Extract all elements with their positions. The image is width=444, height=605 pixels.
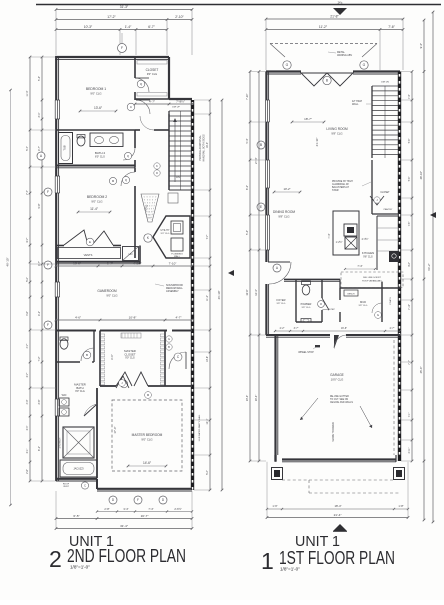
svg-text:24′±: 24′± bbox=[338, 1, 343, 5]
right margin connectors bbox=[401, 71, 412, 73]
stair stringer right plan bbox=[384, 86, 386, 158]
bath2 tub bbox=[59, 133, 73, 164]
lower dim line 4-6 10-8 4-7 bbox=[56, 319, 192, 321]
svg-text:7′-4″: 7′-4″ bbox=[327, 233, 331, 238]
svg-text:1′-4″: 1′-4″ bbox=[125, 25, 132, 29]
svg-text:K: K bbox=[156, 164, 158, 168]
closet top shelf bbox=[121, 333, 141, 338]
svg-text:DN: DN bbox=[176, 175, 180, 179]
svg-text:4′-7″: 4′-7″ bbox=[149, 99, 156, 103]
powder sink bbox=[301, 319, 311, 323]
north arrow bottom bbox=[333, 524, 347, 531]
svg-text:1/8″=1′-0″: 1/8″=1′-0″ bbox=[280, 567, 300, 572]
washer dryer bbox=[59, 398, 69, 406]
powder room bbox=[295, 280, 297, 323]
svg-text:HANDRAIL BOTH SIDES: HANDRAIL BOTH SIDES bbox=[203, 134, 206, 162]
coats closet bbox=[381, 282, 383, 322]
svg-text:1′-2½″: 1′-2½″ bbox=[336, 240, 343, 244]
kitchen counters right bbox=[376, 216, 378, 270]
svg-text:5′-2″: 5′-2″ bbox=[26, 277, 29, 282]
svg-text:GARAGE: GARAGE bbox=[330, 373, 344, 377]
porch post left bbox=[272, 468, 283, 480]
garage left wall bbox=[274, 335, 276, 461]
garage top dim line bbox=[275, 330, 400, 332]
svg-text:11′-3″: 11′-3″ bbox=[26, 90, 29, 96]
metal awning dashed outline bbox=[270, 43, 377, 45]
water heater bbox=[171, 221, 183, 234]
svg-text:2′-8″: 2′-8″ bbox=[104, 507, 109, 511]
svg-text:F: F bbox=[137, 498, 139, 502]
svg-text:CEILING AND WALLS: CEILING AND WALLS bbox=[330, 401, 353, 404]
svg-text:4′-8″: 4′-8″ bbox=[26, 311, 29, 316]
svg-text:W/D: W/D bbox=[62, 394, 67, 397]
svg-text:VENTS: VENTS bbox=[84, 253, 93, 257]
svg-text:4′-0″: 4′-0″ bbox=[26, 399, 29, 404]
svg-text:8′-2″: 8′-2″ bbox=[246, 185, 249, 190]
hall door to master right bbox=[168, 331, 170, 353]
svg-text:10′-2″: 10′-2″ bbox=[283, 187, 290, 191]
svg-text:9′8″ CLG: 9′8″ CLG bbox=[278, 214, 289, 218]
svg-text:17′-2″: 17′-2″ bbox=[107, 15, 116, 19]
svg-text:21′-10″: 21′-10″ bbox=[315, 138, 319, 147]
closet door arc bbox=[135, 78, 149, 92]
right plan left wall bbox=[265, 72, 267, 101]
svg-text:3′-7″: 3′-7″ bbox=[294, 327, 299, 330]
svg-text:12′-4″: 12′-4″ bbox=[254, 289, 258, 296]
svg-text:RE-USE GUTTER: RE-USE GUTTER bbox=[330, 396, 349, 398]
svg-text:31′-3″: 31′-3″ bbox=[120, 5, 129, 9]
svg-text:CLOSET: CLOSET bbox=[380, 192, 390, 194]
svg-text:PROVIDE 36″ HIGH: PROVIDE 36″ HIGH bbox=[332, 181, 353, 183]
svg-text:4′-2″: 4′-2″ bbox=[409, 262, 411, 267]
svg-text:SHOWER: SHOWER bbox=[59, 437, 62, 448]
svg-text:16R DN: 16R DN bbox=[381, 82, 389, 84]
svg-text:21′-4″: 21′-4″ bbox=[334, 513, 343, 517]
svg-text:7′-6″: 7′-6″ bbox=[388, 25, 395, 29]
svg-text:10′-3″: 10′-3″ bbox=[84, 25, 93, 29]
soffit wall step bbox=[339, 280, 341, 289]
left bottom wall bbox=[56, 478, 97, 480]
stairs 1st floor bbox=[371, 86, 373, 158]
kitchen sink dark bbox=[389, 251, 399, 262]
svg-text:7′-10″: 7′-10″ bbox=[246, 93, 249, 99]
utility plumbing box bbox=[171, 238, 183, 251]
svg-text:BENCH: BENCH bbox=[347, 294, 355, 296]
hall bottom wall bbox=[266, 321, 296, 323]
svg-text:4′-6″: 4′-6″ bbox=[75, 315, 81, 319]
svg-text:10′-6″: 10′-6″ bbox=[206, 356, 209, 362]
left plan bottom dim 31-4 bbox=[56, 528, 192, 530]
mid margin overall bbox=[221, 100, 223, 490]
svg-text:PANTRY: PANTRY bbox=[384, 208, 393, 211]
mid margin dim line left plan right side bbox=[209, 100, 211, 490]
linen closet with diagonal bbox=[123, 247, 139, 261]
svg-text:5′-4″: 5′-4″ bbox=[246, 138, 249, 143]
right margin overall bbox=[432, 12, 434, 522]
svg-text:11′-2″: 11′-2″ bbox=[319, 25, 328, 29]
svg-text:2: 2 bbox=[49, 546, 62, 572]
svg-text:12′-1″: 12′-1″ bbox=[206, 418, 209, 424]
wc toilet room bbox=[60, 339, 68, 349]
svg-text:3′-1″: 3′-1″ bbox=[26, 448, 29, 453]
front door arc bbox=[265, 262, 267, 284]
svg-text:TO CUT. SEE ON: TO CUT. SEE ON bbox=[330, 399, 349, 401]
svg-text:9′8″ CLG: 9′8″ CLG bbox=[277, 303, 286, 305]
master closet block top wall bbox=[56, 330, 96, 332]
low headroom wedge under stair bbox=[141, 194, 159, 222]
svg-text:3′-1″: 3′-1″ bbox=[38, 112, 41, 117]
section diamond right bbox=[430, 212, 436, 218]
svg-text:5′-4″: 5′-4″ bbox=[246, 230, 249, 235]
windows on left wall bbox=[54, 100, 56, 119]
right party wall heavy bbox=[398, 72, 401, 462]
svg-text:GAMEROOM: GAMEROOM bbox=[97, 289, 117, 293]
hall doors arcs bbox=[123, 148, 135, 160]
svg-text:21′-8″: 21′-8″ bbox=[330, 14, 339, 18]
stairs 2nd floor bbox=[168, 111, 170, 190]
garage bottom wall bbox=[282, 458, 396, 460]
closet shelf ticks left bbox=[101, 334, 105, 337]
svg-text:B: B bbox=[168, 345, 170, 349]
left margin dim line inner bbox=[41, 57, 43, 481]
svg-text:9′-8″: 9′-8″ bbox=[38, 203, 41, 208]
svg-text:POWDER: POWDER bbox=[301, 303, 312, 306]
svg-text:BALUSTERS AT: BALUSTERS AT bbox=[332, 186, 350, 189]
wall below bedroom2 closet bbox=[56, 261, 140, 263]
svg-text:2′-11″: 2′-11″ bbox=[409, 447, 411, 453]
closet shelf ticks right bbox=[160, 334, 164, 337]
svg-text:JACUZZI: JACUZZI bbox=[73, 468, 84, 471]
svg-text:STAIR: STAIR bbox=[332, 189, 339, 192]
wc room bottom wall bbox=[56, 361, 80, 363]
svg-text:7′-4″: 7′-4″ bbox=[148, 507, 153, 511]
svg-text:46′-10″: 46′-10″ bbox=[6, 257, 10, 266]
svg-text:2′-3½″: 2′-3½″ bbox=[362, 237, 369, 241]
bath door notch bbox=[84, 404, 97, 416]
left plan dim line 10-3 / 1-4 / 6-7 bbox=[56, 29, 167, 31]
driveway dashed outline bbox=[282, 479, 394, 481]
svg-text:GUARDRAIL W/: GUARDRAIL W/ bbox=[332, 183, 349, 186]
bedroom2 closet shelf bbox=[56, 245, 64, 247]
kitchen appliance upper bbox=[344, 224, 357, 236]
svg-text:7′-8½″: 7′-8½″ bbox=[176, 99, 186, 103]
svg-text:19′-4″: 19′-4″ bbox=[254, 395, 258, 402]
svg-text:6′-7″: 6′-7″ bbox=[26, 237, 29, 242]
shower with X bbox=[63, 427, 94, 458]
svg-text:2′-7″: 2′-7″ bbox=[390, 327, 395, 330]
section diamond mid bbox=[228, 270, 234, 276]
french doors entry triangles bbox=[301, 73, 327, 86]
bath2 vanity bbox=[90, 133, 123, 147]
svg-text:1′-7″: 1′-7″ bbox=[107, 261, 113, 265]
stair up arrow bbox=[174, 120, 176, 182]
svg-text:B: B bbox=[86, 353, 88, 357]
master bath partition bbox=[96, 388, 98, 478]
svg-text:F: F bbox=[47, 323, 49, 327]
svg-text:10′-8″: 10′-8″ bbox=[129, 315, 137, 319]
svg-text:MASTER BEDROOM: MASTER BEDROOM bbox=[132, 433, 163, 437]
svg-text:SLOPE TO DRAIN: SLOPE TO DRAIN bbox=[332, 422, 335, 442]
svg-text:5′-4″: 5′-4″ bbox=[206, 470, 209, 475]
svg-text:18′-7″: 18′-7″ bbox=[304, 117, 312, 121]
svg-text:COATS: COATS bbox=[389, 297, 392, 305]
left plan dim line 17-2 / 2-10 bbox=[56, 19, 192, 21]
svg-text:LIN: LIN bbox=[129, 253, 133, 256]
right plan left margin dims bbox=[249, 72, 251, 462]
utility closet pentagon bbox=[153, 216, 190, 258]
svg-text:3′-7″: 3′-7″ bbox=[26, 372, 29, 377]
master bedroom doors top bbox=[116, 376, 129, 388]
left plan exterior walls bbox=[55, 56, 169, 58]
svg-text:WALL: WALL bbox=[174, 255, 181, 258]
svg-text:C: C bbox=[84, 484, 86, 488]
svg-text:4′-7″: 4′-7″ bbox=[176, 315, 182, 319]
svg-text:2′-2″: 2′-2″ bbox=[280, 327, 285, 330]
grid bubble F above plan bbox=[118, 44, 127, 53]
svg-text:BEDROOM 2: BEDROOM 2 bbox=[87, 195, 107, 199]
svg-text:5′-7″: 5′-7″ bbox=[26, 146, 29, 151]
svg-text:DINING ROOM: DINING ROOM bbox=[273, 210, 295, 214]
svg-text:4′-5½″: 4′-5½″ bbox=[133, 261, 141, 265]
svg-text:1′-8″: 1′-8″ bbox=[398, 504, 403, 508]
garage door from mud - filled leaf bbox=[334, 335, 339, 349]
soffit dashed band bbox=[341, 272, 403, 288]
garage top wall bbox=[266, 334, 330, 336]
svg-text:KITCHEN: KITCHEN bbox=[362, 251, 374, 255]
kitchen island block bbox=[333, 211, 359, 255]
svg-text:3′-4″: 3′-4″ bbox=[26, 425, 29, 430]
left margin connector ticks bbox=[30, 56, 56, 58]
left plan bottom dim 6-5 16-7 bbox=[56, 518, 192, 520]
closet under stairs bbox=[371, 160, 373, 214]
svg-text:19′-4″: 19′-4″ bbox=[246, 395, 249, 401]
svg-text:16′-6″: 16′-6″ bbox=[341, 327, 347, 330]
svg-text:9′0″ CLG: 9′0″ CLG bbox=[90, 91, 101, 95]
svg-text:7′-4″: 7′-4″ bbox=[357, 264, 362, 268]
svg-text:8′-1″: 8′-1″ bbox=[38, 446, 41, 451]
svg-text:7′-2″: 7′-2″ bbox=[38, 356, 41, 361]
svg-text:G: G bbox=[363, 63, 366, 67]
sheet top border line bbox=[36, 4, 441, 6]
svg-text:9′0″ CLG: 9′0″ CLG bbox=[106, 293, 117, 297]
mud room bbox=[339, 288, 341, 300]
svg-text:TUB: TUB bbox=[63, 145, 67, 150]
svg-text:7′-1″: 7′-1″ bbox=[409, 413, 411, 418]
svg-text:ROOF (BEAM) ABV: ROOF (BEAM) ABV bbox=[362, 280, 382, 283]
master bedroom bottom wall bbox=[97, 488, 192, 490]
left wall grid bubbles bbox=[37, 152, 45, 160]
svg-text:7′-4″: 7′-4″ bbox=[409, 94, 411, 99]
svg-text:D: D bbox=[156, 171, 158, 175]
mid margin connectors bbox=[194, 99, 210, 101]
svg-text:CLOSET: CLOSET bbox=[146, 68, 159, 72]
grid bubbles G top bbox=[283, 61, 291, 69]
svg-text:9′0″ CLG: 9′0″ CLG bbox=[91, 199, 102, 203]
hall side wall x169 lower bbox=[168, 114, 170, 190]
svg-text:14′-6″: 14′-6″ bbox=[143, 461, 152, 465]
svg-text:7′-10″: 7′-10″ bbox=[409, 304, 411, 310]
svg-text:1′-6″: 1′-6″ bbox=[272, 504, 277, 508]
svg-text:5′-4″: 5′-4″ bbox=[409, 177, 411, 182]
svg-text:7′-7″: 7′-7″ bbox=[409, 360, 411, 365]
svg-text:9′8″ CLG: 9′8″ CLG bbox=[363, 255, 373, 258]
svg-text:64′-2″: 64′-2″ bbox=[427, 263, 431, 270]
svg-text:4′-1″: 4′-1″ bbox=[38, 311, 41, 316]
svg-text:2′-8″: 2′-8″ bbox=[26, 469, 29, 474]
svg-text:ASSEMBLY: ASSEMBLY bbox=[166, 290, 179, 293]
stair kd circles bbox=[154, 163, 160, 169]
svg-text:VENT: VENT bbox=[63, 486, 69, 488]
svg-text:G: G bbox=[377, 313, 379, 317]
jacuzzi tub bbox=[60, 460, 97, 477]
master closet walls bbox=[99, 331, 101, 387]
svg-text:DBL LINE SOFFIT: DBL LINE SOFFIT bbox=[363, 277, 382, 279]
left plan top dimension line 31-3 bbox=[56, 9, 192, 11]
stair dim line 4-7 / 7-8 bbox=[135, 103, 192, 105]
svg-text:6′-7″: 6′-7″ bbox=[148, 25, 155, 29]
svg-text:FOYER: FOYER bbox=[277, 298, 286, 302]
svg-text:1: 1 bbox=[261, 548, 274, 574]
svg-text:1ST FLOOR PLAN: 1ST FLOOR PLAN bbox=[279, 548, 395, 568]
svg-text:E: E bbox=[89, 240, 91, 244]
right plan dim 11-2 7-6 bbox=[266, 29, 403, 31]
bath2 floor wall bbox=[56, 129, 135, 131]
svg-text:9′0″ CLG: 9′0″ CLG bbox=[141, 437, 152, 441]
svg-text:B: B bbox=[326, 79, 328, 83]
north arrow top bbox=[333, 8, 347, 15]
right plan top dim 21-8 bbox=[266, 18, 403, 20]
stair landing box bbox=[168, 193, 178, 203]
right margin dim line 1 bbox=[411, 72, 413, 462]
svg-text:16R UP: 16R UP bbox=[172, 107, 180, 109]
svg-text:31′-4″: 31′-4″ bbox=[120, 524, 129, 528]
svg-text:8′0″ CLG: 8′0″ CLG bbox=[95, 156, 105, 159]
bedroom1 door to hall bbox=[134, 99, 136, 100]
powder door arc bbox=[322, 298, 329, 310]
svg-text:BATH 2: BATH 2 bbox=[95, 151, 106, 155]
hall wall below bath2 bbox=[56, 165, 135, 167]
svg-text:3′-4″: 3′-4″ bbox=[123, 507, 128, 511]
extension lines from top dims bbox=[55, 10, 57, 56]
master closet bifold doors bbox=[116, 372, 132, 386]
svg-text:9′8″ CLG: 9′8″ CLG bbox=[302, 307, 311, 309]
left margin dim line outer bbox=[29, 57, 31, 481]
bedroom1 / closet partition bbox=[134, 57, 136, 78]
svg-text:18′-4″: 18′-4″ bbox=[334, 504, 341, 508]
svg-text:BEDROOM 1: BEDROOM 1 bbox=[86, 87, 106, 91]
svg-text:11′-4″: 11′-4″ bbox=[90, 207, 99, 211]
left wall bubbles bbox=[257, 141, 265, 149]
svg-text:17′-0″: 17′-0″ bbox=[113, 426, 117, 433]
svg-text:13′-6″: 13′-6″ bbox=[94, 106, 103, 110]
right plan left wall windows bbox=[265, 100, 267, 122]
svg-text:7′-6″: 7′-6″ bbox=[409, 222, 411, 227]
stair stringer left plan bbox=[180, 111, 182, 190]
svg-text:6′-0″: 6′-0″ bbox=[110, 354, 114, 360]
svg-text:28′-10″: 28′-10″ bbox=[419, 171, 423, 179]
svg-text:46′-10″: 46′-10″ bbox=[217, 291, 221, 300]
gameroom dim line bbox=[56, 265, 192, 267]
bath2 hall wall segment bbox=[135, 129, 140, 131]
svg-text:F: F bbox=[121, 46, 123, 50]
svg-text:G: G bbox=[168, 337, 170, 341]
closet shelves top bbox=[137, 61, 167, 65]
svg-text:7′-7″: 7′-7″ bbox=[26, 190, 29, 195]
svg-text:7′-10″: 7′-10″ bbox=[169, 261, 177, 265]
right plan bottom dims bbox=[267, 508, 408, 510]
porch post right bbox=[394, 468, 405, 480]
svg-text:1 HR RATED PARTY WALL: 1 HR RATED PARTY WALL bbox=[198, 414, 201, 442]
svg-text:4′-7″: 4′-7″ bbox=[26, 343, 29, 348]
garage dashed line right bbox=[393, 340, 395, 455]
right margin dim line 2 bbox=[423, 20, 425, 520]
below-plan door bubbles D F D bbox=[109, 496, 117, 504]
bedroom2 bifold closet doors bbox=[64, 230, 88, 245]
svg-text:4′-7″: 4′-7″ bbox=[38, 261, 41, 266]
svg-text:7′-7″: 7′-7″ bbox=[206, 234, 209, 239]
svg-text:WHEEL STOP: WHEEL STOP bbox=[298, 351, 314, 354]
svg-text:10′0″ CLG: 10′0″ CLG bbox=[331, 377, 344, 381]
svg-text:UTILITY: UTILITY bbox=[161, 229, 170, 232]
svg-text:27′-4″: 27′-4″ bbox=[254, 157, 258, 164]
svg-text:10′-6″: 10′-6″ bbox=[73, 261, 81, 265]
svg-text:9′0″ CLG: 9′0″ CLG bbox=[75, 390, 85, 393]
svg-text:9′4″ CLG: 9′4″ CLG bbox=[161, 233, 170, 235]
closet block right wall upper bbox=[168, 57, 170, 99]
svg-text:9′8″ CLG: 9′8″ CLG bbox=[359, 305, 368, 307]
svg-text:16′-7″: 16′-7″ bbox=[141, 514, 150, 518]
svg-text:5′-4″: 5′-4″ bbox=[409, 139, 411, 144]
svg-text:2ND FLOOR PLAN: 2ND FLOOR PLAN bbox=[67, 546, 186, 566]
svg-text:STEP: STEP bbox=[329, 309, 335, 311]
svg-text:3′-6″: 3′-6″ bbox=[38, 399, 41, 404]
mud hall wall bbox=[284, 279, 340, 281]
garage arrows bbox=[300, 398, 318, 420]
hall corridor wall x135 bbox=[134, 130, 136, 148]
svg-text:5′-4″: 5′-4″ bbox=[38, 76, 41, 81]
svg-text:4′-7″: 4′-7″ bbox=[38, 146, 41, 151]
svg-text:6′-5″: 6′-5″ bbox=[73, 514, 80, 518]
svg-text:LIVING ROOM: LIVING ROOM bbox=[326, 127, 348, 131]
svg-text:MUD: MUD bbox=[360, 300, 366, 304]
svg-text:WALL: WALL bbox=[352, 103, 359, 106]
kitchen range with X bbox=[345, 237, 357, 249]
svg-text:F: F bbox=[47, 190, 49, 194]
svg-text:16′-3″: 16′-3″ bbox=[206, 142, 209, 148]
svg-text:9′-4″: 9′-4″ bbox=[419, 43, 423, 48]
master bedroom dashed ceiling rect bbox=[112, 400, 182, 471]
svg-text:1/8″=1′-0″: 1/8″=1′-0″ bbox=[70, 565, 90, 570]
bath2 toilet bbox=[77, 136, 85, 146]
svg-text:9′0″ CLG: 9′0″ CLG bbox=[147, 72, 157, 76]
right plan top wall bbox=[266, 70, 301, 72]
svg-text:9′0″ CLG: 9′0″ CLG bbox=[125, 357, 135, 360]
svg-text:12′-6″: 12′-6″ bbox=[246, 289, 249, 295]
svg-text:AWNING ABV: AWNING ABV bbox=[337, 54, 352, 57]
svg-text:9′8″ CLG: 9′8″ CLG bbox=[331, 131, 342, 135]
svg-text:11′-2″: 11′-2″ bbox=[206, 295, 209, 301]
svg-text:25′-4″: 25′-4″ bbox=[419, 367, 423, 374]
left margin overall dim line bbox=[10, 90, 12, 505]
svg-text:2′-6½″: 2′-6½″ bbox=[174, 507, 181, 511]
svg-text:2′-10″: 2′-10″ bbox=[175, 15, 184, 19]
svg-text:G: G bbox=[286, 63, 289, 67]
party wall left plan - heavy bbox=[191, 100, 194, 490]
